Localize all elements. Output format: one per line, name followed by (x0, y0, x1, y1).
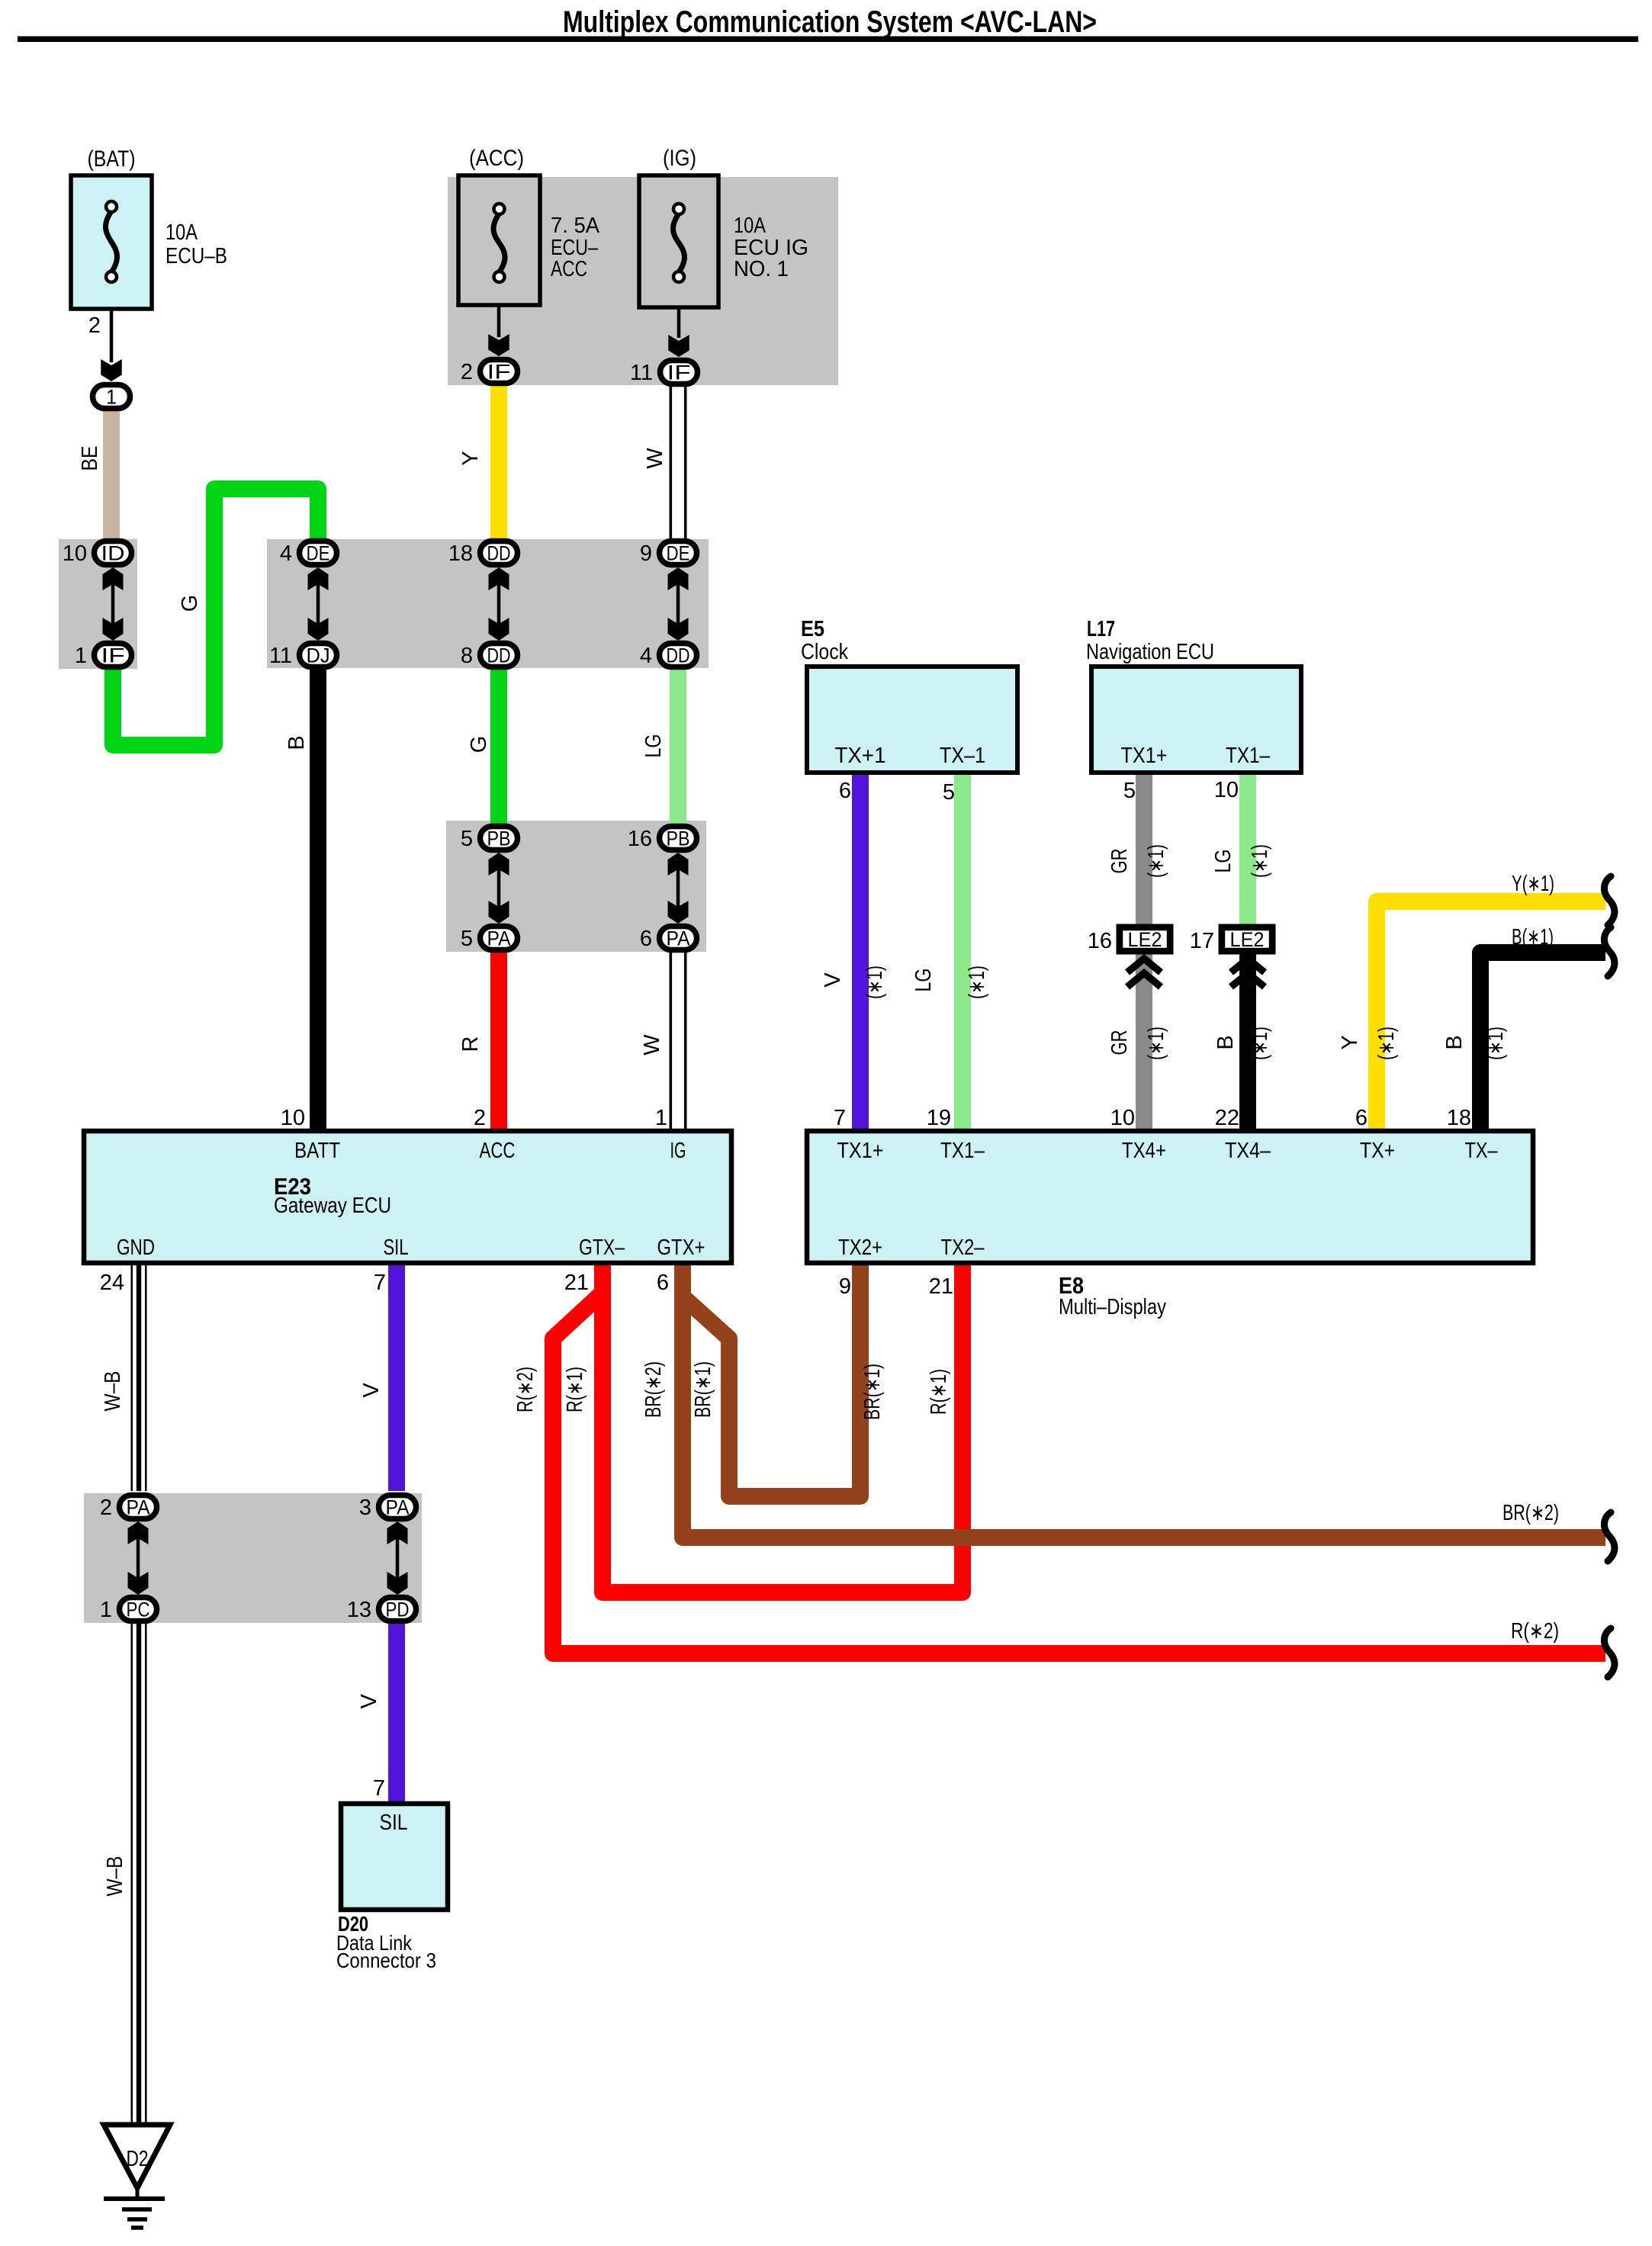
svg-text:B(∗1): B(∗1) (1512, 925, 1554, 949)
svg-text:DD: DD (487, 542, 511, 565)
svg-text:2: 2 (88, 313, 101, 338)
svg-text:10A: 10A (734, 214, 767, 238)
svg-text:DE: DE (667, 542, 690, 565)
svg-text:6: 6 (640, 927, 652, 951)
svg-text:TX4–: TX4– (1225, 1139, 1271, 1163)
svg-text:6: 6 (657, 1271, 669, 1295)
svg-text:5: 5 (1123, 779, 1136, 803)
svg-text:TX1+: TX1+ (1121, 744, 1168, 768)
svg-text:(∗1): (∗1) (1374, 1027, 1399, 1060)
svg-text:E5: E5 (801, 617, 824, 641)
svg-text:R(∗1): R(∗1) (927, 1369, 951, 1415)
svg-text:LE2: LE2 (1128, 928, 1162, 951)
svg-text:Y: Y (458, 451, 483, 465)
svg-text:GR: GR (1107, 1030, 1132, 1056)
svg-text:5: 5 (943, 780, 955, 805)
svg-text:21: 21 (929, 1274, 953, 1299)
svg-text:ACC: ACC (551, 257, 587, 281)
svg-text:9: 9 (839, 1274, 851, 1299)
svg-text:R(∗2): R(∗2) (513, 1367, 538, 1412)
svg-text:(∗1): (∗1) (1248, 1027, 1272, 1060)
svg-text:(BAT): (BAT) (88, 146, 136, 172)
svg-text:R(∗2): R(∗2) (1511, 1619, 1559, 1644)
svg-text:(∗1): (∗1) (1144, 844, 1168, 878)
svg-text:W: W (640, 1034, 664, 1056)
svg-text:LE2: LE2 (1230, 928, 1265, 951)
svg-text:PC: PC (127, 1599, 150, 1621)
svg-text:6: 6 (1355, 1106, 1368, 1130)
svg-text:10: 10 (1214, 778, 1239, 802)
svg-text:GND: GND (117, 1235, 155, 1260)
svg-text:PB: PB (487, 827, 511, 850)
svg-text:10: 10 (281, 1106, 305, 1130)
svg-text:6: 6 (839, 779, 851, 803)
svg-text:TX–1: TX–1 (940, 744, 985, 768)
svg-text:LG: LG (911, 969, 936, 992)
svg-text:V: V (359, 1383, 384, 1398)
svg-text:22: 22 (1215, 1106, 1239, 1130)
svg-text:1: 1 (106, 386, 117, 409)
svg-text:D2: D2 (127, 2147, 149, 2171)
svg-text:7. 5A: 7. 5A (551, 214, 600, 238)
svg-text:TX2+: TX2+ (838, 1235, 882, 1260)
svg-text:GTX+: GTX+ (657, 1235, 705, 1260)
svg-text:10A: 10A (166, 220, 198, 245)
svg-text:PA: PA (127, 1496, 150, 1519)
svg-text:4: 4 (280, 541, 292, 566)
svg-text:V: V (821, 972, 845, 988)
svg-text:ACC: ACC (480, 1139, 516, 1163)
svg-text:W–B: W–B (103, 1856, 127, 1897)
svg-text:TX4+: TX4+ (1122, 1139, 1166, 1163)
svg-text:PA: PA (667, 927, 690, 950)
svg-text:8: 8 (461, 644, 473, 668)
svg-text:DD: DD (667, 644, 690, 667)
svg-text:SIL: SIL (380, 1811, 408, 1835)
svg-text:B: B (284, 735, 309, 750)
svg-text:24: 24 (100, 1271, 124, 1295)
svg-text:1: 1 (75, 644, 87, 668)
svg-text:Multi–Display: Multi–Display (1059, 1295, 1166, 1319)
svg-text:IF: IF (487, 361, 511, 384)
svg-text:IF: IF (101, 644, 125, 667)
svg-text:9: 9 (640, 541, 652, 566)
svg-text:DD: DD (487, 644, 511, 667)
svg-text:BR(∗2): BR(∗2) (1503, 1501, 1559, 1525)
svg-text:11: 11 (269, 644, 292, 668)
svg-text:TX+1: TX+1 (835, 744, 886, 768)
svg-text:GR: GR (1107, 849, 1132, 874)
svg-text:7: 7 (373, 1776, 385, 1801)
svg-text:Multiplex Communication System: Multiplex Communication System <AVC-LAN> (563, 5, 1097, 39)
svg-text:18: 18 (1447, 1106, 1471, 1130)
svg-text:B: B (1213, 1035, 1238, 1049)
svg-text:BR(∗1): BR(∗1) (860, 1364, 885, 1420)
svg-text:13: 13 (347, 1598, 371, 1622)
svg-text:TX2–: TX2– (941, 1235, 985, 1260)
svg-text:SIL: SIL (384, 1235, 409, 1260)
svg-text:NO. 1: NO. 1 (734, 257, 789, 281)
svg-text:B: B (1442, 1035, 1467, 1049)
svg-text:5: 5 (461, 927, 473, 951)
svg-text:G: G (178, 595, 202, 612)
svg-text:(∗1): (∗1) (1144, 1027, 1168, 1060)
svg-text:PA: PA (487, 927, 511, 950)
svg-text:ID: ID (101, 542, 125, 565)
svg-text:Y: Y (1338, 1035, 1362, 1049)
svg-text:(∗1): (∗1) (965, 966, 989, 999)
svg-text:TX1+: TX1+ (837, 1139, 884, 1163)
svg-text:PB: PB (667, 827, 690, 850)
svg-text:2: 2 (474, 1106, 486, 1130)
svg-text:W: W (643, 448, 667, 469)
svg-text:(∗1): (∗1) (1248, 844, 1272, 878)
svg-text:17: 17 (1190, 929, 1214, 953)
svg-text:11: 11 (630, 361, 653, 385)
svg-text:BR(∗1): BR(∗1) (691, 1361, 715, 1418)
svg-text:21: 21 (564, 1271, 589, 1295)
svg-text:IF: IF (667, 361, 691, 384)
svg-text:DJ: DJ (307, 644, 330, 667)
svg-text:7: 7 (374, 1271, 386, 1295)
svg-text:TX1–: TX1– (940, 1139, 985, 1163)
svg-text:R(∗1): R(∗1) (563, 1367, 587, 1412)
svg-text:(IG): (IG) (663, 146, 696, 171)
svg-text:2: 2 (100, 1496, 112, 1520)
svg-text:BATT: BATT (294, 1139, 340, 1163)
svg-text:(∗1): (∗1) (1483, 1027, 1508, 1060)
svg-text:Navigation ECU: Navigation ECU (1086, 640, 1214, 664)
svg-text:G: G (467, 736, 491, 753)
svg-text:PD: PD (386, 1599, 410, 1621)
svg-text:W–B: W–B (101, 1371, 125, 1412)
svg-text:L17: L17 (1087, 617, 1115, 641)
svg-text:BE: BE (78, 446, 102, 471)
svg-text:4: 4 (640, 644, 652, 668)
svg-text:Connector 3: Connector 3 (336, 1949, 436, 1972)
svg-text:1: 1 (100, 1598, 112, 1622)
svg-text:18: 18 (448, 541, 473, 566)
svg-text:V: V (357, 1694, 381, 1709)
svg-text:LG: LG (641, 734, 666, 758)
svg-text:7: 7 (834, 1106, 846, 1130)
svg-text:Y(∗1): Y(∗1) (1512, 872, 1554, 896)
svg-text:16: 16 (1088, 929, 1112, 953)
svg-text:TX1–: TX1– (1226, 744, 1271, 768)
svg-text:PA: PA (386, 1496, 410, 1519)
svg-text:16: 16 (628, 827, 652, 851)
svg-text:(∗1): (∗1) (863, 966, 887, 999)
svg-text:BR(∗2): BR(∗2) (641, 1361, 666, 1418)
svg-text:1: 1 (655, 1106, 667, 1130)
svg-text:10: 10 (63, 541, 87, 566)
svg-text:2: 2 (461, 360, 473, 384)
svg-text:R: R (458, 1036, 483, 1052)
svg-text:LG: LG (1211, 850, 1236, 873)
svg-text:(ACC): (ACC) (469, 146, 524, 171)
svg-text:IG: IG (670, 1139, 686, 1163)
svg-text:TX–: TX– (1465, 1139, 1499, 1163)
svg-text:ECU–B: ECU–B (166, 244, 227, 268)
svg-text:DE: DE (307, 542, 330, 565)
svg-text:Gateway ECU: Gateway ECU (274, 1194, 391, 1218)
svg-text:TX+: TX+ (1360, 1139, 1395, 1163)
svg-text:10: 10 (1110, 1106, 1135, 1130)
svg-text:19: 19 (927, 1106, 951, 1130)
svg-text:3: 3 (359, 1496, 371, 1520)
svg-text:GTX–: GTX– (579, 1235, 625, 1260)
svg-text:Clock: Clock (801, 640, 848, 664)
svg-text:5: 5 (461, 827, 473, 851)
